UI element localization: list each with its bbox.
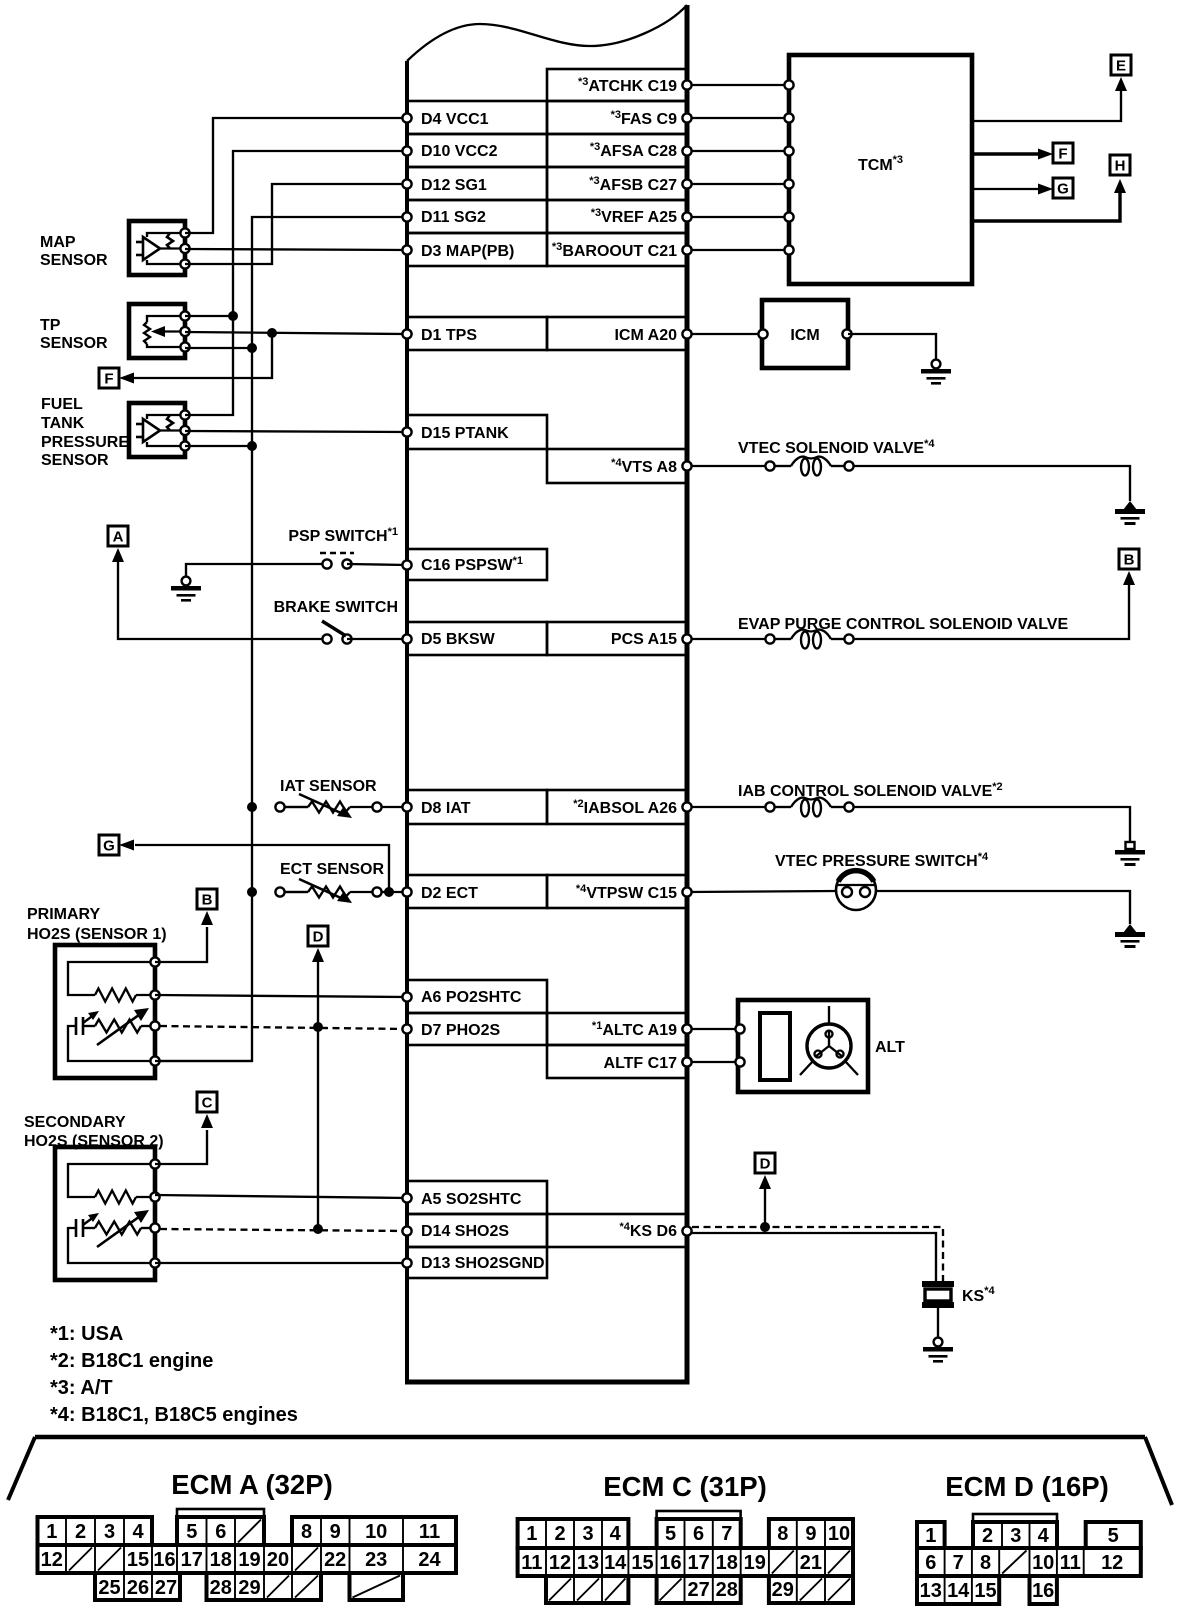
pin ECM D15 — [402, 427, 411, 436]
svg-text:FUEL: FUEL — [41, 396, 83, 413]
primary HO2S heater resistor — [95, 989, 136, 1002]
svg-text:A5 SO2SHTC: A5 SO2SHTC — [421, 1191, 522, 1208]
svg-text:D11 SG2: D11 SG2 — [421, 209, 486, 226]
ECM cell D7 PHO2S — [407, 1013, 547, 1045]
wire KS to ground — [937, 1308, 939, 1338]
ECM main box left edge — [405, 61, 409, 1382]
brake switch — [322, 621, 352, 644]
svg-text:D3 MAP(PB): D3 MAP(PB) — [421, 243, 514, 260]
wire KS signal — [692, 1233, 936, 1284]
svg-text:12: 12 — [549, 1552, 571, 1574]
secondary HO2S element loop — [68, 1228, 155, 1263]
svg-text:HO2S (SENSOR 1): HO2S (SENSOR 1) — [27, 926, 167, 943]
junction TPS branch — [267, 328, 277, 338]
pin ECM D2 — [402, 887, 411, 896]
svg-text:18: 18 — [716, 1552, 738, 1574]
secondary HO2S pin 4 — [150, 1258, 159, 1267]
wire primary HO2S pin3 to D7 PHO2S (shielded) — [160, 1026, 407, 1029]
ground VTEC pressure switch ground — [1115, 924, 1145, 948]
svg-text:*3: A/T: *3: A/T — [50, 1377, 113, 1399]
ECM A key tab — [177, 1509, 264, 1517]
svg-text:5: 5 — [1108, 1525, 1119, 1547]
pin ECM A5 — [402, 1193, 411, 1202]
ECM box torn-paper wavy top — [407, 5, 687, 61]
svg-text:ECM C (31P): ECM C (31P) — [603, 1471, 767, 1502]
wire ECM to ICM — [687, 333, 762, 335]
wire ECT to D2 ECT — [382, 891, 407, 893]
connector panel right slant — [1145, 1437, 1172, 1505]
ECM A row3 cells 28-29 — [207, 1573, 322, 1600]
pin ECM A6 — [402, 992, 411, 1001]
svg-text:D2 ECT: D2 ECT — [421, 885, 478, 902]
svg-text:*2IABSOL A26: *2IABSOL A26 — [573, 798, 677, 817]
wire primary HO2S pin1 to connector B — [155, 927, 207, 962]
wire ECT left segment — [285, 891, 308, 893]
ECM A row3 cells 25-27 — [95, 1573, 180, 1600]
ECM cell ALTF C17 — [547, 1045, 687, 1078]
svg-text:*3ATCHK C19: *3ATCHK C19 — [578, 76, 677, 95]
pin IAB solenoid left — [765, 802, 774, 811]
pin TCM FAS — [784, 113, 793, 122]
ECM A row2 — [38, 1545, 457, 1573]
svg-text:22: 22 — [324, 1549, 346, 1571]
connector label G (to TCM) — [99, 835, 119, 855]
ground IAB solenoid ground — [1115, 842, 1145, 866]
wire SG2 branch to TP pin3 — [185, 347, 252, 349]
svg-text:*4: B18C1, B18C5 engines: *4: B18C1, B18C5 engines — [50, 1404, 298, 1426]
svg-text:*1: USA: *1: USA — [50, 1323, 123, 1345]
svg-text:15: 15 — [974, 1580, 996, 1602]
connector label E — [1111, 55, 1131, 75]
svg-text:*3FAS C9: *3FAS C9 — [611, 109, 678, 128]
svg-text:PSP SWITCH*1: PSP SWITCH*1 — [288, 526, 398, 545]
wire ATCHK to TCM — [687, 84, 789, 86]
pin ICM left — [758, 329, 767, 338]
wire PSP switch to C16 PSPSW — [347, 564, 407, 565]
wire brake switch to D5 BKSW — [347, 638, 407, 640]
ECM cell ICM A20 — [547, 317, 687, 350]
ECM cell D15 PTANK — [407, 415, 547, 449]
wire secondary HO2S pin2 to A5 SO2SHTC — [155, 1195, 407, 1198]
svg-text:D7 PHO2S: D7 PHO2S — [421, 1022, 500, 1039]
svg-text:ALT: ALT — [875, 1039, 905, 1056]
secondary HO2S heater resistor — [95, 1191, 136, 1204]
connector label A (hot in ON) — [108, 526, 128, 546]
svg-text:F: F — [1058, 146, 1067, 163]
ECM A row1 cells 1-4 — [38, 1517, 153, 1545]
svg-text:5: 5 — [665, 1523, 676, 1545]
ECM cell D14 SHO2S — [407, 1214, 547, 1247]
pin ECM D13 — [402, 1258, 411, 1267]
svg-text:27: 27 — [155, 1577, 177, 1599]
wire PSP switch to ground — [186, 564, 322, 577]
svg-text:1: 1 — [925, 1525, 936, 1547]
node SG2 rail — [155, 217, 407, 1061]
svg-text:6: 6 — [925, 1552, 936, 1574]
svg-text:*3BAROOUT C21: *3BAROOUT C21 — [552, 241, 677, 260]
wire AFSB to TCM — [687, 183, 789, 185]
TP sensor pin 3 — [180, 342, 189, 351]
ECM cell C16 PSPSW — [407, 549, 547, 580]
svg-text:3: 3 — [582, 1523, 593, 1545]
ground KS ground — [923, 1338, 953, 1363]
pin VTPSW C15 — [682, 887, 691, 896]
svg-text:2: 2 — [75, 1521, 86, 1543]
wire KS shield — [692, 1227, 943, 1282]
wire secondary HO2S pin3 to D14 SHO2S (shielded) — [160, 1229, 407, 1231]
wire TCM to connector E — [972, 91, 1121, 121]
ECM C row1 cells 5-7 — [657, 1519, 741, 1548]
svg-text:4: 4 — [132, 1521, 144, 1543]
FUEL TANK PRESSURE sensor box — [129, 403, 185, 457]
TCM box — [789, 55, 972, 284]
secondary HO2S sensing element — [76, 1210, 155, 1247]
pin VTEC solenoid left — [765, 461, 774, 470]
svg-text:PRESSURE: PRESSURE — [41, 434, 129, 451]
FUEL TANK PRESSURE sensor pin 3 — [180, 441, 189, 450]
svg-text:D1 TPS: D1 TPS — [421, 327, 477, 344]
wire FAS to TCM — [687, 117, 789, 119]
svg-text:14: 14 — [604, 1552, 627, 1574]
ECM cell VTS A8 — [547, 449, 687, 483]
svg-text:29: 29 — [238, 1577, 260, 1599]
svg-text:SENSOR: SENSOR — [40, 335, 108, 352]
wire D4 VCC1 to MAP pin1 — [185, 118, 407, 233]
pin TCM ATCHK — [784, 80, 793, 89]
svg-text:11: 11 — [1060, 1552, 1081, 1574]
svg-text:6: 6 — [215, 1521, 226, 1543]
connector label B (EVAP) — [1119, 549, 1139, 569]
svg-text:G: G — [1057, 181, 1069, 198]
connector label D (KS reference) — [755, 1153, 775, 1173]
junction PHO2S/D branch — [313, 1022, 323, 1032]
wire secondary HO2S pin1 to connector C — [155, 1130, 207, 1164]
wire brake switch to connector A — [118, 562, 322, 639]
svg-text:VTEC SOLENOID VALVE*4: VTEC SOLENOID VALVE*4 — [738, 438, 935, 457]
svg-text:SENSOR: SENSOR — [41, 452, 109, 469]
svg-text:16: 16 — [153, 1549, 175, 1571]
svg-text:D10 VCC2: D10 VCC2 — [421, 143, 498, 160]
wire EVAP solenoid lead 2 — [831, 638, 844, 640]
pin ECM ALTC — [682, 1024, 691, 1033]
wire VTPSW C15 to switch — [687, 891, 836, 892]
primary HO2S element loop — [68, 1026, 155, 1061]
svg-text:G: G — [103, 838, 115, 855]
ECM cell FAS C9 — [547, 101, 687, 134]
ECM cell VTPSW C15 — [547, 875, 687, 908]
junction SHO2S/D branch — [313, 1224, 323, 1234]
svg-text:2: 2 — [982, 1525, 993, 1547]
pin ECM D8 — [402, 802, 411, 811]
svg-text:PCS A15: PCS A15 — [611, 631, 677, 648]
ECM D row3 cells 13-15 — [917, 1576, 999, 1604]
ECM cell VREF A25 — [547, 200, 687, 233]
svg-text:D12 SG1: D12 SG1 — [421, 177, 487, 194]
ECM C row1 cells 1-4 — [518, 1519, 629, 1548]
FUEL TANK PRESSURE sensor internals — [136, 415, 185, 446]
wire primary HO2S pin2 to A6 PO2SHTC — [155, 995, 407, 997]
svg-text:D5 BKSW: D5 BKSW — [421, 631, 496, 648]
wire BAROOUT to TCM — [687, 249, 789, 251]
pin VTEC solenoid right — [844, 461, 853, 470]
footnotes — [50, 1323, 298, 1426]
wire ECT branch to connector G — [135, 845, 389, 892]
ECM C row3 cells 27-28 — [657, 1576, 741, 1603]
svg-text:9: 9 — [330, 1521, 341, 1543]
primary HO2S heater loop — [68, 962, 155, 995]
TP sensor internals — [144, 316, 185, 347]
wire IAB solenoid to ground — [854, 807, 1130, 842]
svg-text:14: 14 — [947, 1580, 970, 1602]
pin ECM ATCHK — [682, 80, 691, 89]
wire D1 TPS to TP pin2 — [185, 332, 407, 334]
svg-text:*3AFSA C28: *3AFSA C28 — [590, 141, 677, 160]
wire EVAP solenoid lead — [775, 638, 791, 640]
svg-text:E: E — [1116, 58, 1126, 75]
wire IAT to D8 IAT — [382, 806, 407, 808]
svg-text:20: 20 — [267, 1549, 289, 1571]
pin TCM AFSA — [784, 146, 793, 155]
junction SG2/ECT — [247, 887, 257, 897]
wire D3 MAP(PB) to MAP pin2 — [185, 249, 407, 250]
VTEC pressure switch symbol — [836, 870, 876, 910]
ECM main box bottom edge — [405, 1380, 690, 1385]
pin ECM D10 — [402, 146, 411, 155]
wire ALTF C17 to ALT — [687, 1061, 740, 1063]
connector panel left slant — [8, 1437, 35, 1500]
ECM cell A6 PO2SHTC — [407, 980, 547, 1013]
svg-text:8: 8 — [980, 1552, 991, 1574]
svg-text:23: 23 — [365, 1549, 387, 1571]
svg-text:TP: TP — [40, 317, 61, 334]
ground ICM ground — [921, 360, 951, 385]
wire primary HO2S pin4 to SG2 rail — [155, 1060, 252, 1062]
ECM cell D12 SG1 — [407, 167, 547, 200]
wire D reference vertical — [317, 960, 319, 1229]
secondary HO2S box — [55, 1147, 155, 1280]
wire VTEC pressure switch to ground — [876, 891, 1130, 924]
svg-text:24: 24 — [418, 1549, 441, 1571]
ECM A row3 blank cell — [350, 1573, 404, 1600]
wire VTS A8 to solenoid — [687, 465, 765, 467]
wire D12 SG1 to MAP pin3 — [185, 184, 407, 264]
svg-text:3: 3 — [104, 1521, 115, 1543]
MAP sensor internals — [136, 233, 185, 264]
MAP sensor box — [129, 221, 185, 275]
svg-text:16: 16 — [1032, 1580, 1054, 1602]
pin ICM A20 — [682, 329, 691, 338]
svg-text:8: 8 — [777, 1523, 788, 1545]
wire IAT left segment — [285, 806, 308, 808]
svg-text:H: H — [1115, 158, 1126, 175]
wire AFSA to TCM — [687, 150, 789, 152]
wire TPS branch to connector F — [134, 333, 272, 378]
ECM D row1 cell 5 — [1086, 1522, 1141, 1548]
svg-text:ECM A (32P): ECM A (32P) — [171, 1469, 332, 1500]
svg-text:*1ALTC A19: *1ALTC A19 — [592, 1020, 677, 1039]
secondary HO2S pin 1 — [150, 1159, 159, 1168]
pin ECM C16 — [402, 560, 411, 569]
pin ECM D3 — [402, 245, 411, 254]
svg-text:6: 6 — [693, 1523, 704, 1545]
svg-text:21: 21 — [800, 1552, 822, 1574]
ECM D row3 cell 16 — [1030, 1576, 1057, 1604]
connector label G (from TCM) — [1053, 178, 1073, 198]
FUEL TANK PRESSURE sensor pin 1 — [180, 410, 189, 419]
pin IAB solenoid right — [844, 802, 853, 811]
svg-text:29: 29 — [772, 1579, 794, 1601]
primary HO2S pin 3 — [150, 1021, 159, 1030]
svg-text:A6 PO2SHTC: A6 PO2SHTC — [421, 989, 522, 1006]
ECM cell A5 SO2SHTC — [407, 1181, 547, 1214]
wire TCM to connector H — [972, 193, 1120, 221]
junction SG2/IAT — [247, 802, 257, 812]
IAT sensor (thermistor) — [275, 794, 381, 818]
pin ECM VREF — [682, 212, 691, 221]
svg-text:ALTF C17: ALTF C17 — [604, 1055, 678, 1072]
svg-text:25: 25 — [98, 1577, 120, 1599]
ECM cell D5 BKSW — [407, 622, 547, 655]
ECM cell D1 TPS — [407, 317, 547, 350]
ECM cell D10 VCC2 — [407, 134, 547, 167]
ECM C key tab — [657, 1511, 741, 1519]
svg-text:26: 26 — [127, 1577, 149, 1599]
svg-text:11: 11 — [521, 1552, 542, 1574]
svg-text:13: 13 — [920, 1580, 942, 1602]
ECM cell BAROOUT C21 — [547, 233, 687, 266]
MAP sensor pin 1 — [180, 228, 189, 237]
ECM cell D4 VCC1 — [407, 101, 547, 134]
ECM cell AFSB C27 — [547, 167, 687, 200]
pin VTS A8 — [682, 461, 691, 470]
svg-text:15: 15 — [631, 1552, 653, 1574]
svg-text:ICM A20: ICM A20 — [614, 327, 677, 344]
wire solenoid lead 2 — [831, 465, 844, 467]
svg-text:VTEC PRESSURE SWITCH*4: VTEC PRESSURE SWITCH*4 — [775, 851, 989, 870]
svg-text:MAP: MAP — [40, 234, 76, 251]
svg-text:*3VREF A25: *3VREF A25 — [591, 207, 677, 226]
MAP sensor pin 3 — [180, 259, 189, 268]
svg-text:TANK: TANK — [41, 415, 85, 432]
wire D15 PTANK to FUEL pin2 — [185, 431, 407, 432]
svg-text:F: F — [104, 371, 113, 388]
pin ALTC A19 — [682, 1024, 691, 1033]
svg-text:7: 7 — [953, 1552, 964, 1574]
junction KS/D branch — [760, 1222, 770, 1232]
secondary HO2S pin 2 — [150, 1192, 159, 1201]
wire secondary HO2S pin4 to D13 SHO2SGND — [155, 1262, 407, 1264]
svg-text:D: D — [760, 1156, 771, 1173]
wire KS branch to connector D — [764, 1189, 766, 1225]
pin ECM D4 — [402, 113, 411, 122]
svg-text:D4 VCC1: D4 VCC1 — [421, 111, 489, 128]
ECM cell AFSA C28 — [547, 134, 687, 167]
svg-text:C: C — [202, 1095, 213, 1112]
svg-text:27: 27 — [687, 1579, 709, 1601]
primary HO2S pin 1 — [150, 957, 159, 966]
connector label H — [1110, 155, 1130, 175]
ECM A row1 cells 8-11 — [292, 1517, 456, 1545]
primary HO2S pin 2 — [150, 990, 159, 999]
ECM C row3 hatched — [546, 1576, 628, 1603]
wire VCC2 branch to TP pin1 — [185, 315, 233, 317]
secondary HO2S pin 3 — [150, 1223, 159, 1232]
svg-text:10: 10 — [828, 1523, 850, 1545]
svg-text:12: 12 — [1101, 1552, 1123, 1574]
ICM box — [762, 300, 848, 368]
svg-text:19: 19 — [744, 1552, 766, 1574]
ECM cell ATCHK C19 — [547, 69, 687, 101]
pin ALTF C17 — [682, 1057, 691, 1066]
wire ICM to ground — [848, 334, 936, 360]
FUEL TANK PRESSURE sensor pin 2 — [180, 426, 189, 435]
ALT (alternator) box — [738, 1000, 868, 1092]
ECM cell D3 MAP(PB) — [407, 233, 547, 266]
PSP switch — [320, 553, 354, 569]
pin EVAP solenoid left — [765, 634, 774, 643]
TP sensor pin 1 — [180, 311, 189, 320]
wire IAB solenoid lead 2 — [831, 806, 844, 808]
svg-text:B: B — [202, 892, 213, 909]
wire SG2 branch to FUEL pin3 — [185, 445, 252, 447]
solenoid coil EVAP purge solenoid — [791, 630, 831, 649]
pin TCM VREF — [784, 212, 793, 221]
svg-text:D15 PTANK: D15 PTANK — [421, 425, 509, 442]
pin ECM D7 — [402, 1024, 411, 1033]
svg-text:IAB CONTROL SOLENOID VALVE*2: IAB CONTROL SOLENOID VALVE*2 — [738, 781, 1003, 800]
svg-text:17: 17 — [181, 1549, 203, 1571]
svg-text:9: 9 — [805, 1523, 816, 1545]
ECM C row3 cell 29 — [769, 1576, 853, 1603]
wire TCM to connector G — [972, 188, 1041, 190]
svg-text:19: 19 — [238, 1549, 260, 1571]
ECM cell D11 SG2 — [407, 200, 547, 233]
svg-text:7: 7 — [721, 1523, 732, 1545]
svg-text:18: 18 — [210, 1549, 232, 1571]
ECM cell KS D6 — [547, 1214, 687, 1247]
ECM C row2 — [518, 1548, 853, 1576]
svg-text:D13 SHO2SGND: D13 SHO2SGND — [421, 1255, 545, 1272]
ECM cell IABSOL A26 — [547, 790, 687, 824]
svg-text:BRAKE SWITCH: BRAKE SWITCH — [274, 599, 398, 616]
svg-text:D8 IAT: D8 IAT — [421, 800, 471, 817]
primary HO2S box — [55, 945, 155, 1078]
pin TCM AFSB — [784, 179, 793, 188]
svg-text:10: 10 — [1032, 1552, 1054, 1574]
pin ALT left 1 — [735, 1024, 744, 1033]
solenoid coil VTEC solenoid — [791, 457, 831, 476]
primary HO2S sensing element — [76, 1008, 155, 1045]
pin ECM BAROOUT — [682, 245, 691, 254]
pin ECM ALTF — [682, 1057, 691, 1066]
TP sensor pin 2 — [180, 327, 189, 336]
svg-text:3: 3 — [1010, 1525, 1021, 1547]
wire IABSOL A26 to solenoid — [687, 806, 765, 808]
svg-text:28: 28 — [210, 1577, 232, 1599]
svg-text:D14 SHO2S: D14 SHO2S — [421, 1223, 509, 1240]
connector panel top border — [35, 1435, 1145, 1440]
ECM cell D8 IAT — [407, 790, 547, 824]
ECM cell D2 ECT — [407, 875, 547, 908]
ECM cell ALTC A19 — [547, 1013, 687, 1045]
pin ECM D11 — [402, 212, 411, 221]
ECM A row1 cells 5-7 — [177, 1517, 264, 1545]
wire VREF to TCM — [687, 216, 789, 218]
svg-text:5: 5 — [186, 1521, 197, 1543]
svg-text:28: 28 — [716, 1579, 738, 1601]
MAP sensor pin 2 — [180, 244, 189, 253]
junction ECT/G branch — [384, 887, 394, 897]
